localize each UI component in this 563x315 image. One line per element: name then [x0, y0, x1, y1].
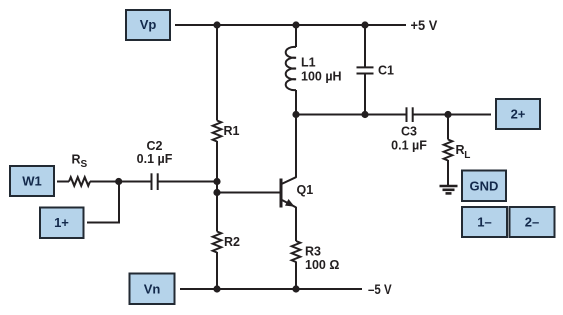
node RS / 1+ junction	[115, 178, 122, 185]
wire C1 bottom lead	[364, 74, 366, 115]
wire C1 top lead	[364, 25, 366, 67]
svg-text:R: R	[72, 152, 81, 166]
wire L1 top lead	[295, 25, 297, 47]
terminal box 1-	[462, 207, 507, 237]
svg-text:Vp: Vp	[140, 17, 157, 32]
node input / R1-R2 junction	[213, 178, 220, 185]
transistor Q1	[280, 177, 314, 207]
node L1 / collector junction	[292, 111, 299, 118]
wire collector lead	[295, 115, 297, 178]
svg-text:GND: GND	[470, 179, 499, 194]
node RL junction	[444, 111, 451, 118]
wire base node to R2	[216, 193, 218, 232]
resistor R1	[213, 121, 240, 142]
wire emitter lead	[295, 207, 297, 241]
wire R3 to bottom rail	[295, 262, 297, 290]
wire W1 to RS	[57, 181, 69, 183]
wire 1+ sense line	[87, 182, 119, 223]
svg-text:1+: 1+	[54, 215, 69, 230]
resistor R3	[292, 241, 340, 272]
svg-text:1–: 1–	[477, 215, 491, 230]
ground	[440, 186, 458, 193]
svg-text:100 Ω: 100 Ω	[305, 258, 339, 272]
resistor RS	[69, 152, 90, 186]
wire R1 branch upper	[216, 25, 218, 121]
wire RL to ground	[447, 160, 449, 186]
node C1 / mid rail junction	[361, 111, 368, 118]
capacitor C1	[357, 63, 395, 77]
svg-text:S: S	[81, 159, 88, 170]
node top rail / L1 junction	[292, 21, 299, 28]
node top rail / R1 junction	[213, 21, 220, 28]
svg-text:C1: C1	[378, 63, 394, 77]
capacitor C3	[391, 107, 427, 152]
svg-text:Vn: Vn	[144, 281, 161, 296]
node top rail / C1 junction	[361, 21, 368, 28]
terminal box W1	[10, 166, 54, 196]
svg-text:L: L	[464, 150, 470, 161]
svg-text:L1: L1	[301, 56, 316, 70]
node base junction	[213, 189, 220, 196]
wire C2 to base node	[158, 181, 217, 183]
svg-text:2–: 2–	[525, 215, 539, 230]
svg-text:R2: R2	[224, 235, 240, 249]
resistor R2	[213, 232, 240, 253]
resistor RL	[444, 140, 471, 161]
svg-text:Q1: Q1	[297, 183, 314, 197]
svg-text:R: R	[456, 143, 465, 157]
svg-text:W1: W1	[22, 174, 42, 189]
terminal box Vp	[126, 10, 170, 40]
inductor L1	[286, 47, 342, 90]
terminal box 2+	[496, 99, 540, 129]
svg-text:100 µH: 100 µH	[301, 70, 342, 84]
svg-text:2+: 2+	[511, 107, 526, 122]
terminal box GND	[462, 171, 506, 202]
terminal box Vn	[130, 274, 175, 305]
svg-text:R3: R3	[305, 244, 321, 258]
svg-text:+5 V: +5 V	[411, 18, 439, 33]
wire mid rail collector to C3	[296, 114, 406, 116]
node bottom rail / R2 junction	[213, 285, 220, 292]
svg-text:–5 V: –5 V	[368, 282, 392, 297]
terminal box 1+	[40, 208, 84, 239]
wire L1 bottom lead	[295, 90, 297, 115]
wire bottom rail -5V	[180, 288, 362, 290]
terminal box 2-	[510, 207, 555, 237]
svg-text:C2: C2	[147, 139, 163, 153]
svg-text:R1: R1	[224, 124, 240, 138]
svg-text:C3: C3	[401, 124, 417, 138]
wire RS to C2	[90, 181, 151, 183]
wire R1 to input node	[216, 141, 218, 193]
capacitor C2	[137, 139, 173, 190]
wire RL upper lead	[447, 115, 449, 140]
svg-text:0.1 µF: 0.1 µF	[137, 152, 173, 166]
wire base lead	[217, 192, 280, 194]
wire top rail +5V	[175, 24, 406, 26]
wire C3 to output	[413, 114, 491, 116]
wire R2 to bottom rail	[216, 252, 218, 289]
svg-text:0.1 µF: 0.1 µF	[391, 138, 427, 152]
node bottom rail / R3 junction	[292, 285, 299, 292]
